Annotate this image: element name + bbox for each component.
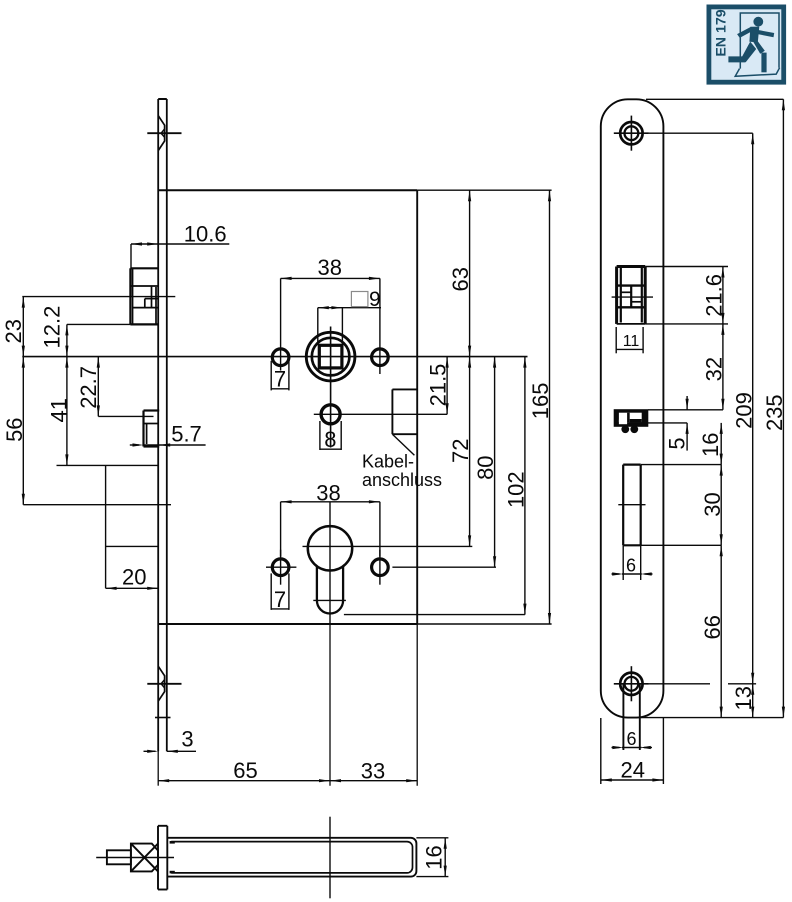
svg-text:23: 23 (1, 319, 26, 343)
svg-text:16: 16 (421, 845, 446, 869)
svg-text:3: 3 (181, 727, 193, 752)
svg-text:235: 235 (762, 394, 787, 431)
svg-text:5: 5 (664, 437, 689, 449)
svg-text:65: 65 (233, 758, 257, 783)
svg-text:22.7: 22.7 (76, 366, 101, 409)
svg-text:20: 20 (122, 565, 146, 590)
svg-text:Kabel-: Kabel- (362, 452, 414, 472)
svg-text:9: 9 (369, 288, 381, 311)
svg-text:209: 209 (731, 392, 756, 429)
svg-text:6: 6 (626, 556, 636, 576)
svg-text:anschluss: anschluss (362, 470, 442, 490)
svg-text:102: 102 (504, 471, 529, 508)
svg-text:32: 32 (701, 357, 726, 381)
svg-text:72: 72 (448, 439, 473, 463)
svg-text:13: 13 (731, 686, 756, 710)
svg-text:63: 63 (448, 267, 473, 291)
svg-text:21.6: 21.6 (701, 274, 726, 317)
svg-text:5.7: 5.7 (171, 422, 202, 447)
svg-text:41: 41 (46, 398, 71, 422)
svg-text:56: 56 (2, 417, 27, 441)
svg-text:7: 7 (274, 587, 286, 612)
svg-text:8: 8 (324, 427, 336, 452)
svg-text:16: 16 (698, 433, 723, 457)
svg-text:80: 80 (473, 455, 498, 479)
svg-text:10.6: 10.6 (184, 222, 227, 247)
svg-text:33: 33 (361, 759, 385, 784)
svg-text:24: 24 (621, 758, 645, 783)
svg-text:38: 38 (316, 480, 340, 505)
svg-text:66: 66 (700, 615, 725, 639)
svg-text:7: 7 (274, 367, 286, 392)
svg-text:EN 179: EN 179 (714, 9, 730, 56)
svg-text:6: 6 (626, 729, 636, 749)
svg-text:21.5: 21.5 (426, 364, 451, 407)
svg-text:11: 11 (623, 333, 640, 350)
svg-text:12.2: 12.2 (40, 306, 65, 349)
svg-text:30: 30 (700, 492, 725, 516)
svg-text:165: 165 (528, 383, 553, 420)
svg-text:38: 38 (317, 255, 341, 280)
